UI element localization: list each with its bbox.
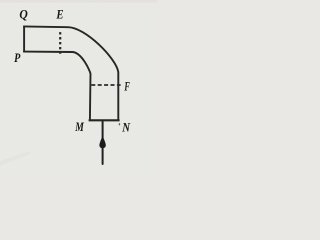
svg-text:F: F: [124, 78, 130, 93]
pipe top-outer wall: straight run then elbow curve down to right wall: [23, 26, 118, 120]
inflow arrow shaft: [102, 121, 104, 165]
svg-text:E: E: [56, 6, 64, 21]
svg-text:N: N: [121, 119, 130, 134]
pipe bottom-inner wall: straight run then inner elbow curve down: [23, 52, 90, 121]
svg-text:Q: Q: [19, 7, 28, 22]
faint top edge shade: [0, 0, 157, 3]
paper shading (scan unevenness): [0, 0, 157, 177]
small scan speck near N: [119, 123, 120, 125]
svg-text:P: P: [14, 50, 21, 65]
dotted section line at E: [59, 32, 61, 54]
pipe left end cap P-Q: [23, 26, 25, 53]
inflow arrowhead (pointing up): [99, 136, 105, 148]
dashed section line at F: [91, 84, 120, 86]
svg-text:M: M: [74, 119, 84, 134]
paper background: [0, 0, 157, 177]
pipe bottom opening line M-N: [89, 119, 120, 121]
faint streak bottom-left (scan artifact): [0, 151, 30, 166]
